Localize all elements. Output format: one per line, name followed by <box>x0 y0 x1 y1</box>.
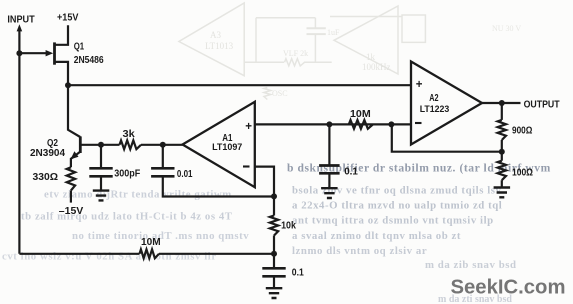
wire gate <box>19 52 47 54</box>
wire input vertical <box>18 30 20 254</box>
svg-text:1uF: 1uF <box>327 28 340 37</box>
Q2 emitter lead <box>71 152 80 168</box>
svg-text:900Ω: 900Ω <box>512 126 532 137</box>
svg-text:100Ω: 100Ω <box>512 168 533 179</box>
node 3k / 0.01 / A1 out <box>141 144 183 146</box>
svg-text:0.1: 0.1 <box>292 268 304 279</box>
wire to 0.01 cap <box>162 145 164 169</box>
wire to 0.1 cap <box>328 124 330 165</box>
svg-text:2N5486: 2N5486 <box>74 55 104 66</box>
svg-text:2N3904: 2N3904 <box>30 148 65 159</box>
capacitor 0.1 first <box>319 166 340 174</box>
wire feedback to A2 minus <box>392 124 502 151</box>
resistor 10k <box>270 216 278 236</box>
svg-text:+: + <box>245 121 252 133</box>
wire A1 plus to A2 minus <box>255 123 411 125</box>
wire to 0.1 second <box>273 254 275 268</box>
node source/main <box>65 82 71 88</box>
svg-text:VLF 2k: VLF 2k <box>283 49 308 58</box>
svg-text:bsola ziov ve tfnr oq dlsna zm: bsola ziov ve tfnr oq dlsna zmud tqils l… <box>292 185 502 197</box>
ghost resistor horizontal <box>285 59 305 66</box>
svg-text:LT1097: LT1097 <box>212 142 242 153</box>
op-amp A1 LT1097 (points left) <box>183 102 255 187</box>
Q2 base lead <box>80 144 101 146</box>
svg-text:OSC: OSC <box>272 89 288 98</box>
svg-text:0.01: 0.01 <box>177 169 193 180</box>
svg-text:10M: 10M <box>350 109 371 120</box>
Q1 drain lead <box>55 25 69 45</box>
svg-text:OUTPUT: OUTPUT <box>524 100 561 111</box>
resistor 100 ohm <box>501 152 503 161</box>
svg-text:ant tvmq ittra oz dsmnlo vnt t: ant tvmq ittra oz dsmnlo vnt tqmsiv ilp <box>292 215 494 227</box>
svg-text:3k: 3k <box>123 129 136 140</box>
svg-text:A2: A2 <box>429 93 439 104</box>
wire to 300pF <box>100 145 102 169</box>
svg-text:A3: A3 <box>210 30 221 40</box>
svg-text:1k: 1k <box>366 52 376 62</box>
svg-text:no time tinorio adT .ms nno qm: no time tinorio adT .ms nno qmstv <box>72 230 249 242</box>
node input-gate <box>16 50 22 56</box>
node 0.1 cap on line <box>326 121 332 127</box>
resistor 3k <box>101 144 120 146</box>
wire main horizontal to A2 plus <box>68 84 411 86</box>
svg-text:tb zalf mirqo udz lato tH-Ct-i: tb zalf mirqo udz lato tH-Ct-it b 4z os … <box>21 210 233 222</box>
resistor 10M bottom <box>140 249 160 258</box>
node 0.01/A1minus/10k <box>271 193 277 199</box>
transistor Q2 base bar <box>79 136 82 153</box>
svg-text:300pF: 300pF <box>114 169 140 180</box>
op-amp A2 LT1223 <box>411 62 482 145</box>
svg-text:+: + <box>416 79 423 91</box>
node Q2 base <box>98 142 104 148</box>
node 900/100/feedback <box>499 149 505 155</box>
capacitor 300pF <box>89 168 112 176</box>
node bottom 10k/0.1 <box>271 251 277 257</box>
capacitor 0.1 second <box>262 268 285 276</box>
ground 100 ohm <box>494 188 511 198</box>
wire A2 output <box>482 102 521 104</box>
ghost wires center <box>244 18 332 63</box>
svg-text:+15V: +15V <box>57 13 78 24</box>
svg-text:330Ω: 330Ω <box>33 172 59 183</box>
ghost capacitor <box>307 28 326 34</box>
svg-text:m da zib snav bsd: m da zib snav bsd <box>425 259 517 271</box>
svg-text:10k: 10k <box>281 221 296 232</box>
ghost resistor vertical <box>264 88 271 100</box>
svg-text:a svaal znimo dlt tqnv mlsa ob: a svaal znimo dlt tqnv mlsa ob zt <box>292 230 461 242</box>
resistor 330 ohm <box>67 167 75 190</box>
capacitor 0.01 <box>151 168 174 176</box>
svg-text:lznmo dls vntm oq zlsiv ar: lznmo dls vntm oq zlsiv ar <box>292 245 427 257</box>
resistor 900 ohm <box>501 103 503 120</box>
ghost op-amp triangle left <box>179 3 244 76</box>
resistor 10M top <box>349 120 373 129</box>
svg-text:10M: 10M <box>141 237 161 248</box>
svg-text:100kHz: 100kHz <box>362 62 391 72</box>
ground 0.1 first <box>321 188 338 198</box>
node feedback/A2 minus <box>388 121 394 127</box>
svg-text:NU 30 V: NU 30 V <box>492 24 521 33</box>
svg-text:cvt lno wslz v:u V 02h SA adt: cvt lno wslz v:u V 02h SA adt otn zmsv i… <box>2 251 217 263</box>
svg-text:LT1223: LT1223 <box>420 104 450 115</box>
ghost box right <box>330 15 425 42</box>
ground 0.1 second <box>266 288 283 298</box>
wire bottom feedback <box>19 253 139 255</box>
input arrow <box>17 24 23 31</box>
svg-text:SeekIC.com: SeekIC.com <box>451 277 566 299</box>
svg-text:INPUT: INPUT <box>7 15 35 26</box>
wire down to Q2 collector <box>68 85 80 137</box>
svg-text:a 22x4-O tltra mzvd no ualp tn: a 22x4-O tltra mzvd no ualp tnmio zd tql <box>292 200 502 212</box>
Q1 source lead <box>55 62 69 85</box>
transistor Q1 channel bar <box>53 42 56 64</box>
svg-text:LT1013: LT1013 <box>205 41 234 51</box>
gate arrowhead <box>46 50 54 56</box>
ground 300pF <box>93 191 110 201</box>
wire A1 minus down <box>255 167 274 216</box>
ghost op-amp triangle right <box>334 6 398 74</box>
Q2 emitter arrow <box>71 151 79 159</box>
svg-text:0.1: 0.1 <box>344 167 358 178</box>
svg-text:–15V: –15V <box>59 206 84 217</box>
svg-text:Q1: Q1 <box>74 42 85 53</box>
